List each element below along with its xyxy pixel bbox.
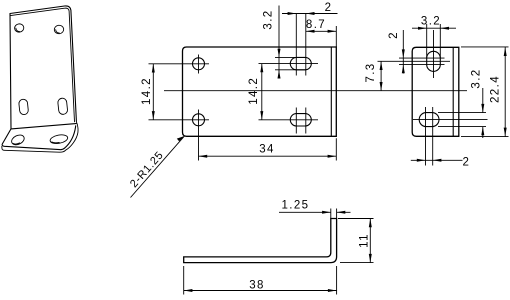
isometric view of L-bracket xyxy=(2,6,78,152)
plate outline xyxy=(183,47,337,136)
side bend line xyxy=(452,47,454,136)
svg-text:34: 34 xyxy=(259,144,275,156)
side outline xyxy=(412,47,459,136)
side view (right) xyxy=(365,16,509,169)
hole bottom-left xyxy=(193,114,205,126)
iso plate thickness line xyxy=(10,8,74,122)
iso bend line xyxy=(11,124,76,129)
iso flange front thickness xyxy=(2,122,78,152)
dim 7.3 xyxy=(380,61,382,90)
svg-text:2: 2 xyxy=(325,2,333,14)
dim 3.2 top (front) xyxy=(278,6,280,79)
crosshair top-left hole xyxy=(149,55,210,74)
dim 11 xyxy=(338,219,374,263)
L profile outline xyxy=(184,219,337,263)
crosshair bottom-left hole + 34 ext xyxy=(149,110,210,161)
svg-text:1.25: 1.25 xyxy=(282,200,310,212)
side slot bottom (horizontal) xyxy=(419,113,439,127)
dim 2 top (front) xyxy=(282,13,338,15)
svg-text:2: 2 xyxy=(463,157,471,169)
dim 38 xyxy=(184,266,337,295)
svg-text:7.3: 7.3 xyxy=(365,62,377,82)
iso flange slot right xyxy=(49,133,68,144)
side slot top (vertical) xyxy=(427,51,441,71)
dim 3.2 right (side) xyxy=(482,88,484,138)
side slot top centerlines xyxy=(378,30,451,78)
svg-text:22.4: 22.4 xyxy=(489,75,501,103)
side slot bottom centerlines xyxy=(413,107,488,166)
svg-text:3.2: 3.2 xyxy=(471,68,483,88)
svg-text:3.2: 3.2 xyxy=(421,16,441,28)
slot bottom-right xyxy=(290,114,311,126)
dim 34 xyxy=(199,138,337,160)
profile view (bottom) xyxy=(184,200,374,295)
hole top-left xyxy=(193,58,205,70)
iso hole top-left xyxy=(14,23,24,32)
dim 2 left (side) xyxy=(402,30,404,74)
dim 1.25 xyxy=(279,211,351,213)
svg-text:3.2: 3.2 xyxy=(263,9,275,29)
svg-text:11: 11 xyxy=(359,233,371,248)
front view (middle) xyxy=(128,2,337,198)
iso hole top-right xyxy=(54,25,64,35)
iso slot right xyxy=(57,98,67,115)
svg-text:38: 38 xyxy=(249,279,265,291)
dim 14.2 inner xyxy=(261,64,263,120)
leg side ext above cap xyxy=(331,209,337,219)
iso plate left edge xyxy=(10,14,11,129)
iso slot left xyxy=(19,99,29,115)
iso plate top and right edge xyxy=(10,6,76,122)
slot top-right centerlines xyxy=(259,14,319,76)
leader 2-R1.25 xyxy=(131,136,185,197)
long centerline xyxy=(164,90,467,92)
dim 2 bottom (side) xyxy=(411,159,463,161)
side slot bottom tangent ext xyxy=(438,113,486,127)
dim 14.2 left xyxy=(152,64,154,120)
svg-text:2: 2 xyxy=(388,31,400,39)
iso flange top face xyxy=(2,126,76,150)
slot top-right tangent ext xyxy=(275,57,306,69)
svg-text:14.2: 14.2 xyxy=(141,77,153,105)
dim 3.2 top (side) xyxy=(412,27,456,29)
dim 8.7 xyxy=(306,26,337,47)
bend line xyxy=(330,47,332,136)
slot bottom-right centerlines xyxy=(259,108,319,134)
svg-text:8.7: 8.7 xyxy=(306,19,326,31)
slot top-right xyxy=(290,57,311,69)
side slot top tangents ext xyxy=(427,24,441,59)
dim 22.4 xyxy=(461,47,509,137)
iso flange slot left xyxy=(10,133,26,147)
